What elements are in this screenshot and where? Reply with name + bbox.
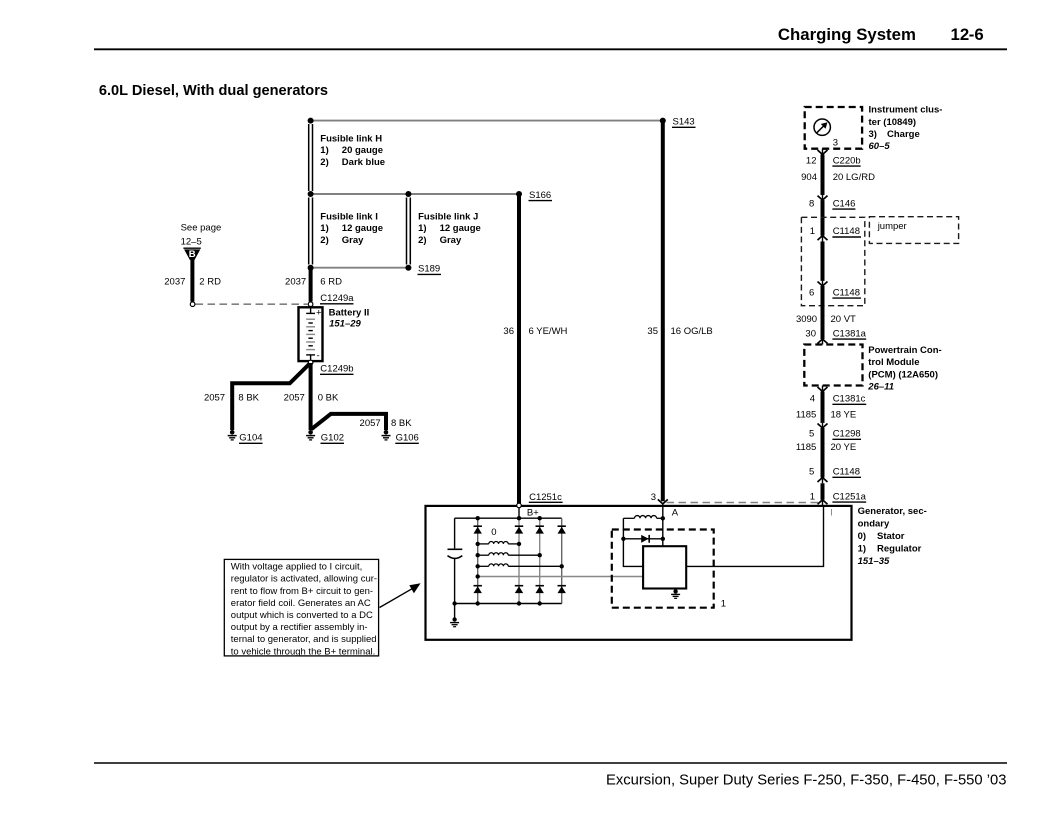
svg-text:3: 3 <box>651 492 656 503</box>
svg-text:1: 1 <box>721 599 726 610</box>
svg-text:Excursion, Super Duty Series F: Excursion, Super Duty Series F-250, F-35… <box>606 773 1007 789</box>
svg-text:to vehicle through the B+ term: to vehicle through the B+ terminal. <box>231 646 375 657</box>
wire to G106 (thick, diagonal + horizontal + vertical) <box>311 414 386 430</box>
svg-text:0 BK: 0 BK <box>318 393 339 404</box>
wire stem from cluster <box>822 149 824 155</box>
svg-text:Fusible link J: Fusible link J <box>418 211 478 222</box>
svg-text:ternal to generator, and is su: ternal to generator, and is supplied <box>231 634 377 645</box>
wire stem below PCM <box>822 386 824 392</box>
svg-text:2057: 2057 <box>284 393 305 404</box>
svg-text:S189: S189 <box>418 264 440 275</box>
charge indicator gauge symbol <box>814 119 830 135</box>
diode D2 top column 2 <box>515 526 523 533</box>
connector arrow C1381c (down) <box>818 387 828 392</box>
svg-text:I: I <box>830 507 833 518</box>
svg-text:Charging System: Charging System <box>778 25 916 44</box>
svg-text:8 BK: 8 BK <box>391 418 412 429</box>
svg-text:C1148: C1148 <box>833 287 860 298</box>
svg-text:S166: S166 <box>529 190 551 201</box>
svg-text:C1251a: C1251a <box>833 491 867 502</box>
svg-text:Regulator: Regulator <box>877 543 922 554</box>
svg-text:Dark blue: Dark blue <box>342 157 385 168</box>
junction dot diode row left <box>621 537 625 541</box>
fusible link I <box>309 198 313 265</box>
wire between C1148 pins (thick) <box>821 242 825 281</box>
wire 1185 18 YE (thick) <box>821 392 825 423</box>
wire S189 bus (gray horizontal) <box>311 267 409 269</box>
svg-text:A: A <box>672 507 679 518</box>
capacitor C (filter) <box>448 518 463 603</box>
wire 36 6 YE/WH (thick vertical from S166) <box>517 194 521 504</box>
connector arrow C146 (down) <box>818 196 828 201</box>
wire stem at C146 <box>822 195 824 200</box>
wire stem into generator I terminal <box>822 500 824 506</box>
fusible link J <box>407 198 411 265</box>
connector arrow at A terminal (down) <box>658 499 668 504</box>
svg-text:See page: See page <box>181 223 222 234</box>
svg-text:1): 1) <box>418 223 426 234</box>
instrument cluster box (dashed) <box>805 107 862 149</box>
svg-text:6 YE/WH: 6 YE/WH <box>529 326 568 337</box>
svg-text:60–5: 60–5 <box>869 141 891 152</box>
svg-text:2037: 2037 <box>164 276 185 287</box>
fusible link H <box>309 124 313 191</box>
svg-text:1185: 1185 <box>796 442 816 453</box>
wire regulator output to I terminal <box>686 506 823 567</box>
svg-text:35: 35 <box>647 326 658 337</box>
svg-text:rent to flow from B+ circuit t: rent to flow from B+ circuit to gen- <box>231 586 373 597</box>
svg-text:36: 36 <box>503 326 514 337</box>
junction dot stator output <box>476 574 480 578</box>
wire between C146 and C1148 (thick) <box>821 200 825 236</box>
PCM box (dashed) <box>804 345 862 386</box>
svg-text:12 gauge: 12 gauge <box>342 223 383 234</box>
ground G104 <box>228 430 237 440</box>
wire rectifier column 4 <box>561 518 563 603</box>
svg-text:6: 6 <box>809 287 814 298</box>
svg-text:3090: 3090 <box>796 314 817 325</box>
wire stem at C1148 pin6 <box>822 281 824 286</box>
voltage regulator dashed enclosure <box>612 530 714 608</box>
wire rectifier column 2 <box>518 518 520 603</box>
stator winding L3 <box>478 564 562 566</box>
junction at top of fusible link H <box>308 118 314 124</box>
svg-text:30: 30 <box>805 328 816 339</box>
diode D8 bottom column 4 <box>558 586 566 593</box>
splice S143 <box>660 118 666 124</box>
svg-text:26–11: 26–11 <box>867 382 894 393</box>
svg-text:C220b: C220b <box>833 155 861 166</box>
svg-text:jumper: jumper <box>877 221 907 232</box>
svg-text:G102: G102 <box>321 433 344 444</box>
diode D6 bottom column 2 <box>515 586 523 593</box>
battery II box <box>299 307 323 361</box>
svg-text:Gray: Gray <box>342 235 364 246</box>
svg-text:2 RD: 2 RD <box>199 276 221 287</box>
wire stem below C1148 pin5 <box>822 478 824 484</box>
wire top rail of rectifier <box>455 517 562 519</box>
svg-text:0): 0) <box>858 531 866 542</box>
wire stem below C1148 pin1 <box>822 236 824 242</box>
wire bottom rail of rectifier <box>455 603 562 605</box>
wire B+ stem inside generator <box>518 508 520 519</box>
svg-text:151–35: 151–35 <box>858 556 890 567</box>
dashed wire from B to battery positive <box>196 303 308 305</box>
note arrow to generator <box>380 583 421 607</box>
svg-text:3): 3) <box>869 129 877 140</box>
dashed jumper wire from A terminal to C1251a <box>667 502 820 504</box>
C1148 in-line connector dashed box <box>801 217 864 305</box>
svg-text:erator field coil. Generates a: erator field coil. Generates an AC <box>231 598 371 609</box>
svg-text:C1298: C1298 <box>833 429 861 440</box>
header rule <box>94 48 1007 50</box>
diode D1 top column 1 <box>474 526 482 533</box>
off-page connector B (triangle) <box>183 247 200 249</box>
svg-text:S143: S143 <box>673 117 695 128</box>
footer rule <box>94 762 1007 764</box>
svg-text:12: 12 <box>951 25 970 44</box>
svg-text:12 gauge: 12 gauge <box>440 223 481 234</box>
ground (generator internal, capacitor) <box>450 617 459 626</box>
svg-text:+: + <box>316 307 322 318</box>
svg-text:1): 1) <box>320 223 328 234</box>
svg-text:3: 3 <box>833 137 838 148</box>
svg-text:Stator: Stator <box>877 531 905 542</box>
svg-text:20 LG/RD: 20 LG/RD <box>833 172 875 183</box>
junction dots on top rail <box>476 516 480 520</box>
ground G106 <box>382 430 391 440</box>
svg-text:2): 2) <box>418 235 426 246</box>
note box <box>224 559 378 656</box>
regulator block U1 <box>643 546 686 588</box>
diode D9 (field suppression) <box>641 535 649 543</box>
svg-text:C1249b: C1249b <box>320 364 353 375</box>
field winding (rotor coil) <box>623 516 662 519</box>
svg-text:C1148: C1148 <box>833 226 860 237</box>
svg-text:2): 2) <box>320 235 328 246</box>
svg-text:20 gauge: 20 gauge <box>342 145 383 156</box>
svg-text:Instrument clus-: Instrument clus- <box>869 105 943 116</box>
diode D4 top column 4 <box>558 526 566 533</box>
svg-text:G106: G106 <box>396 433 419 444</box>
battery internal plates <box>306 309 315 361</box>
svg-text:C1381a: C1381a <box>833 328 867 339</box>
terminal circle C1249b <box>308 360 313 365</box>
svg-text:20 VT: 20 VT <box>831 314 857 325</box>
wire S166 bus (gray horizontal) <box>311 193 519 195</box>
svg-text:2057: 2057 <box>204 393 225 404</box>
wire stem into PCM <box>822 339 824 345</box>
svg-text:Battery II: Battery II <box>329 308 370 319</box>
wire 1185 20 YE (thick) <box>821 428 825 478</box>
svg-text:18 YE: 18 YE <box>831 410 857 421</box>
connector arrow C1148 pin5 (up) <box>818 478 828 483</box>
svg-text:5: 5 <box>809 429 814 440</box>
connector arrow C1298 (down) <box>818 424 828 429</box>
splice S166 <box>516 191 522 197</box>
svg-text:Generator, sec-: Generator, sec- <box>858 506 927 517</box>
svg-text:2): 2) <box>320 157 328 168</box>
svg-text:C1251c: C1251c <box>529 492 562 503</box>
svg-text:(PCM) (12A650): (PCM) (12A650) <box>868 369 938 380</box>
ground G102 <box>306 430 315 440</box>
svg-text:12: 12 <box>806 155 817 166</box>
svg-text:output which is converted to a: output which is converted to a DC <box>231 610 373 621</box>
svg-text:1): 1) <box>858 543 866 554</box>
svg-text:5: 5 <box>809 467 814 478</box>
terminal circle at B wire end <box>190 302 195 307</box>
svg-text:6.0L Diesel, With dual generat: 6.0L Diesel, With dual generators <box>99 83 328 99</box>
svg-text:output by a rectifier assembly: output by a rectifier assembly in- <box>231 622 368 633</box>
wire S143 bus (gray horizontal) <box>311 120 663 122</box>
svg-text:Powertrain Con-: Powertrain Con- <box>868 345 941 356</box>
svg-text:12–5: 12–5 <box>181 237 202 248</box>
wire A terminal stem inside generator <box>662 504 664 546</box>
svg-text:16 OG/LB: 16 OG/LB <box>671 326 713 337</box>
svg-text:8: 8 <box>809 198 814 209</box>
svg-text:Charge: Charge <box>887 129 920 140</box>
svg-text:6 RD: 6 RD <box>320 276 342 287</box>
diode D7 bottom column 3 <box>536 586 544 593</box>
svg-text:-6: -6 <box>969 25 984 44</box>
junction fusible link H bottom <box>308 191 314 197</box>
wire 2057 0 BK (thick vertical to G102) <box>309 363 313 430</box>
wire 2037 2 RD (thick vertical) <box>190 258 194 302</box>
wire 35 16 OG/LB (thick vertical from S143) <box>661 121 665 502</box>
wire rectifier column 1 <box>477 518 479 603</box>
note text <box>231 562 377 658</box>
svg-text:2057: 2057 <box>360 418 381 429</box>
svg-text:1185: 1185 <box>796 410 816 421</box>
svg-text:C1249a: C1249a <box>320 293 354 304</box>
svg-text:4: 4 <box>810 394 815 405</box>
svg-text:G104: G104 <box>239 433 262 444</box>
svg-text:With voltage applied to I circ: With voltage applied to I circuit, <box>231 562 362 573</box>
wire 904 20 LG/RD (thick) <box>821 155 825 196</box>
terminal circle C1249a <box>308 302 313 307</box>
wire to G104 (thick, diagonal + horizontal + vertical) <box>232 364 310 431</box>
wire 3090 20 VT (thick) <box>821 286 825 339</box>
svg-text:1: 1 <box>810 226 815 237</box>
svg-text:C1148: C1148 <box>833 467 860 478</box>
svg-text:151–29: 151–29 <box>329 318 361 329</box>
wire stator output to regulator (gray) <box>478 576 643 578</box>
svg-text:ondary: ondary <box>858 519 890 530</box>
junction fusible link I bottom <box>308 265 314 271</box>
svg-text:-: - <box>317 351 320 362</box>
diode D3 top column 3 <box>536 526 544 533</box>
svg-text:1): 1) <box>320 145 328 156</box>
junction dot diode row / A wire <box>661 537 665 541</box>
junction dot field winding / A wire <box>661 516 665 520</box>
connector arrow C1148 pin1 (up) <box>818 236 828 241</box>
svg-text:1: 1 <box>810 491 815 502</box>
svg-text:Gray: Gray <box>440 235 462 246</box>
svg-text:0: 0 <box>491 527 496 538</box>
jumper dashed box <box>869 217 958 244</box>
stator winding L1 <box>478 541 519 543</box>
svg-text:Fusible link I: Fusible link I <box>320 211 378 222</box>
junction dots on bottom rail <box>452 601 456 605</box>
wire field winding left leg <box>623 518 643 566</box>
stator winding L2 <box>478 553 540 555</box>
svg-text:904: 904 <box>801 172 817 183</box>
wire capacitor to ground <box>454 604 456 618</box>
junction fusible link J top <box>405 191 411 197</box>
svg-text:trol Module: trol Module <box>868 357 919 368</box>
connector arrow C1251a (up) <box>818 500 828 505</box>
svg-text:regulator is activated, allowi: regulator is activated, allowing cur- <box>231 574 377 585</box>
wire between C1148 and C1251a (thick) <box>821 483 825 500</box>
splice S189 <box>405 265 411 271</box>
svg-text:20 YE: 20 YE <box>831 442 857 453</box>
wire 2037 6 RD (thick vertical below S189) <box>309 268 313 302</box>
svg-text:2037: 2037 <box>285 276 306 287</box>
junction dots on winding rows <box>476 542 480 546</box>
terminal circle C1251c at generator box <box>517 503 522 508</box>
connector arrow C1148 pin6 (down) <box>818 282 828 287</box>
svg-text:Fusible link H: Fusible link H <box>320 133 382 144</box>
wire stem at C1298 <box>822 423 824 428</box>
svg-text:C1381c: C1381c <box>833 394 866 405</box>
wire diode row <box>623 538 662 540</box>
connector arrow C1381a (up) <box>818 339 828 344</box>
diode D5 bottom column 1 <box>474 586 482 593</box>
svg-text:B+: B+ <box>527 507 539 518</box>
wire rectifier column 3 <box>539 518 541 603</box>
ground (regulator) <box>671 589 680 599</box>
svg-text:ter (10849): ter (10849) <box>869 117 917 128</box>
connector arrow C220b (down) <box>818 150 828 155</box>
svg-text:C146: C146 <box>833 198 856 209</box>
generator, secondary box <box>426 506 852 640</box>
svg-text:8 BK: 8 BK <box>238 393 259 404</box>
